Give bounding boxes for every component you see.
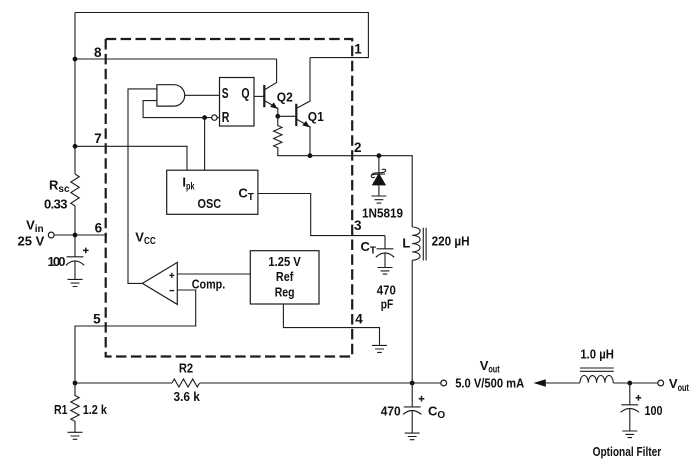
diode 1N5819 anode triangle [372,173,386,185]
wire: Vin top rail to pin 1 corner [75,13,368,58]
svg-text:3.6 k: 3.6 k [174,389,201,404]
svg-text:6: 6 [95,221,103,236]
wire: R input line [205,117,220,119]
resistor Rsc 0.33 [71,174,79,206]
ground: R1 [68,432,83,439]
svg-text:Comp.: Comp. [192,277,225,292]
plus sign CO [419,396,425,402]
junction: R1 R2 node [73,381,78,386]
svg-text:7: 7 [94,131,102,146]
svg-text:S: S [222,85,229,102]
ground: CO [405,433,420,440]
wire: Q2 emitter node to Q1 base [278,115,297,117]
terminal: filter Vout [658,380,664,386]
svg-text:Ref: Ref [276,269,294,284]
wire: left input rail (Vin riser) [74,13,76,175]
svg-text:1.25 V: 1.25 V [268,254,301,269]
svg-text:1N5819: 1N5819 [362,205,403,220]
svg-text:R: R [222,109,230,126]
svg-text:Q: Q [241,85,249,102]
terminal: Vout [441,380,447,386]
wire: pin 2 to inductor [310,156,412,227]
ground: diode [371,196,386,203]
wire: comparator - input to pin 5 [75,290,196,383]
svg-text:pF: pF [381,296,393,311]
svg-text:25 V: 25 V [18,234,45,249]
svg-text:1.0 µH: 1.0 µH [580,346,614,361]
diode 1N5819 stub [378,156,380,173]
diode 1N5819 lower stub [378,185,380,196]
transistor Q2 base wire [254,95,264,97]
diode 1N5819 schottky cathode [371,169,386,177]
wire: AND lower input from R line [143,101,205,118]
svg-text:R1: R1 [54,402,67,417]
capacitor CT timing 470pF [376,236,394,268]
junction: filter cap node [627,381,632,386]
wire: Vin terminal stub [54,234,75,236]
junction: Q2 emitter node [275,114,280,119]
junction: pin 7 / input rail [73,144,78,149]
wire: arrow to filter coil [545,382,580,384]
arrow: Q2 emitter [270,102,277,109]
ground: input cap [68,279,83,286]
svg-text:100: 100 [645,403,663,418]
junction: R line to OSC [202,115,207,120]
IC dashed boundary MC34063 [106,39,353,357]
svg-text:1.2 k: 1.2 k [83,402,108,417]
svg-text:L: L [402,235,410,250]
plus mark comparator [169,273,174,278]
svg-text:1: 1 [354,42,362,57]
svg-text:Optional Filter: Optional Filter [593,445,662,459]
svg-text:5.0 V/500 mA: 5.0 V/500 mA [455,376,525,391]
transistor Q1 [295,104,297,126]
resistor R1 1.2k [71,383,79,432]
svg-text:4: 4 [355,312,363,327]
svg-text:100: 100 [48,254,66,269]
capacitor CO output [403,383,421,433]
op-amp comparator [142,262,177,304]
wire: comparator + input to ref [177,273,250,275]
latch box SR [220,78,255,127]
resistor R2 3.6k [172,379,200,387]
gate: AND oscillator gating [157,85,185,106]
svg-text:Q1: Q1 [308,109,324,124]
bubble: latch R input [212,115,217,120]
wire: pin 6 stub into IC [75,234,107,236]
junction: Q1 emitter / pin 2 [308,153,313,158]
wire: Rsc to Vin node and input cap [74,206,76,257]
ground: filter cap [622,431,637,438]
junction: Vin / pin 6 node [73,233,78,238]
transistor Q2 [263,85,265,107]
inductor L core lines [423,228,426,261]
wire: bottom feedback rail left [75,382,172,384]
svg-text:5: 5 [93,311,101,326]
wire: R2 to output node [200,382,441,384]
resistor: driver emitter pulldown [274,116,310,155]
svg-text:Q2: Q2 [277,89,293,104]
junction: pin 8 / input rail [73,57,78,62]
arrow: Q1 emitter [302,121,309,128]
svg-text:470: 470 [381,404,401,419]
ground: pin 4 [372,345,387,352]
plus sign filter cap [636,395,642,401]
svg-text:3: 3 [354,218,362,233]
junction: output node [410,381,415,386]
capacitor 100 filter [621,383,639,431]
box: 1.25V reference regulator [250,251,319,304]
wire: OSC CT output to pin 3 [258,194,385,236]
wire: comparator output up to AND input [128,89,157,284]
svg-text:R2: R2 [179,360,193,375]
capacitor 100 input electrolytic [66,257,84,280]
wire: AND output to latch S [185,94,220,96]
wire: filter coil to Vout terminal [613,382,658,384]
svg-text:220 µH: 220 µH [432,233,470,248]
wire: pin 7 to OSC Ipk input [75,146,187,170]
minus mark comparator [170,290,175,292]
ground: CT cap [378,268,393,275]
svg-text:0.33: 0.33 [44,197,68,212]
arrow: from filter to output [534,379,546,387]
terminal: Vin input [48,232,54,238]
svg-text:Reg: Reg [275,284,295,299]
svg-text:2: 2 [354,140,362,155]
box: oscillator [167,170,258,214]
inductor filter core lines [580,368,614,371]
svg-text:OSC: OSC [198,196,222,211]
wire: R junction down to OSC [204,118,206,171]
inductor 1.0uH filter coil [580,376,613,383]
wire: inductor to output node [411,260,413,383]
junction: diode node [377,153,382,158]
plus sign input cap [83,248,89,254]
inductor L 220uH coil [412,227,420,260]
wire: ref reg to pin 4 ground [283,304,379,345]
wire: pin 8 driver collector supply [75,58,277,60]
svg-text:8: 8 [94,45,102,60]
